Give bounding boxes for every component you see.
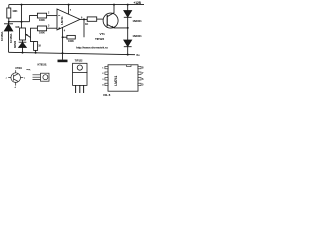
svg-text:LM741: LM741: [114, 76, 118, 86]
node A divider top wire: [9, 21, 30, 23]
svg-text:6: 6: [142, 77, 144, 81]
diode VD4: [124, 28, 132, 55]
svg-text:8: 8: [142, 66, 144, 70]
svg-text:1N4001: 1N4001: [132, 34, 142, 38]
TO-92 package: [33, 73, 50, 81]
svg-text:1K: 1K: [38, 45, 41, 48]
svg-text:100K: 100K: [39, 31, 45, 35]
junction dots: [8, 4, 129, 56]
transistor VT1: [103, 5, 128, 29]
svg-text:LM741: LM741: [60, 16, 64, 25]
svg-text:KC156A: KC156A: [0, 31, 4, 41]
svg-text:1N4001: 1N4001: [132, 19, 142, 23]
svg-text:100K: 100K: [39, 18, 45, 22]
svg-text:э: э: [6, 78, 8, 80]
resistor R7 base: [87, 17, 103, 21]
svg-text:KC156A: KC156A: [9, 33, 13, 43]
svg-text:7: 7: [70, 9, 72, 12]
resistor R4: [31, 26, 58, 42]
svg-text:КТ361: КТ361: [15, 67, 22, 70]
svg-text:4: 4: [102, 83, 104, 86]
svg-text:б: б: [15, 86, 17, 89]
svg-text:100K: 100K: [68, 39, 74, 43]
svg-text:4: 4: [64, 30, 66, 33]
svg-text:10K: 10K: [15, 26, 19, 29]
diode VD3: [124, 5, 132, 28]
svg-text:2: 2: [102, 73, 104, 75]
svg-text:http://www.shemotek.ru: http://www.shemotek.ru: [76, 46, 108, 50]
op-amp U1: [57, 5, 88, 54]
resistor R3: [37, 13, 57, 18]
svg-text:10K: 10K: [12, 9, 18, 13]
svg-text:Rн: Rн: [137, 54, 141, 57]
DIP-8 package: [105, 65, 141, 91]
potentiometer R2: [20, 28, 31, 40]
svg-text:1K: 1K: [85, 22, 88, 26]
diode VD2: [19, 40, 27, 53]
svg-text:5: 5: [142, 82, 144, 86]
ground: [58, 53, 68, 62]
svg-text:2: 2: [48, 12, 50, 15]
pinout Q circle: [8, 70, 23, 85]
svg-text:7: 7: [142, 71, 144, 75]
wire pot riser: [21, 5, 23, 28]
wire bottom rail: [9, 52, 136, 54]
svg-text:к: к: [24, 78, 26, 80]
zener VD1: [4, 22, 13, 53]
svg-text:VT1: VT1: [100, 32, 106, 36]
resistor R6 feedback: [63, 19, 84, 39]
svg-text:TIP122: TIP122: [75, 59, 83, 63]
svg-text:TIP122: TIP122: [95, 37, 105, 41]
svg-text:+12B: +12B: [134, 1, 142, 5]
resistor R5: [34, 42, 38, 53]
svg-text:3: 3: [48, 25, 50, 28]
svg-text:KT815Б: KT815Б: [38, 62, 47, 66]
resistor R1: [7, 5, 11, 22]
svg-text:1: 1: [102, 68, 104, 70]
svg-text:KD522: KD522: [14, 40, 17, 48]
svg-text:вид: вид: [26, 69, 30, 71]
svg-text:3: 3: [102, 79, 104, 81]
wire to R3: [30, 16, 38, 22]
svg-text:DIL 8: DIL 8: [103, 93, 110, 97]
TO-220 package: [73, 63, 87, 93]
svg-text:6: 6: [81, 16, 83, 19]
wire top rail: [9, 4, 144, 6]
